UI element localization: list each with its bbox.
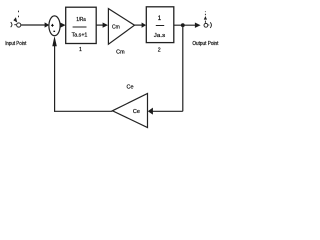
transfer function block 1 : 1/Ra over Ta.s+1: [66, 7, 97, 43]
gain Cm: [108, 9, 134, 45]
wire sum to block 1 (arrow): [60, 23, 65, 28]
svg-text:2: 2: [158, 47, 161, 53]
svg-text:Ce: Ce: [127, 85, 134, 91]
input port marker (Input Point): [11, 11, 21, 28]
summing junction: [49, 16, 60, 36]
svg-text:1/Ra: 1/Ra: [76, 17, 86, 23]
wire feedback: up into sum: [54, 46, 56, 112]
svg-text:Cm: Cm: [116, 50, 124, 56]
svg-text:Ja.s: Ja.s: [154, 33, 166, 39]
wire input to sum: [21, 24, 45, 26]
wire feedback: left horizontal from gain Ce tip: [54, 110, 112, 112]
svg-text:Ta.s+1: Ta.s+1: [72, 33, 88, 39]
wire block 2 to output with junction: [174, 24, 196, 26]
svg-text:Input Point: Input Point: [5, 41, 27, 47]
wire gain Cm to block 2: [135, 24, 143, 26]
output port marker (Output Point): [204, 11, 212, 28]
svg-text:Ce: Ce: [133, 109, 140, 115]
wire block 1 to gain Cm: [96, 24, 103, 26]
integrator block 2 : 1 over Ja.s: [146, 7, 174, 43]
gain Ce: [112, 94, 147, 128]
wire feedback: right horizontal into gain Ce: [152, 110, 182, 112]
junction node: [181, 23, 185, 27]
svg-text:1: 1: [79, 47, 82, 53]
svg-text:1: 1: [158, 15, 162, 22]
svg-text:Output Point: Output Point: [192, 41, 218, 47]
wire feedback: down from junction: [182, 25, 184, 111]
svg-text:Cm: Cm: [112, 24, 120, 30]
